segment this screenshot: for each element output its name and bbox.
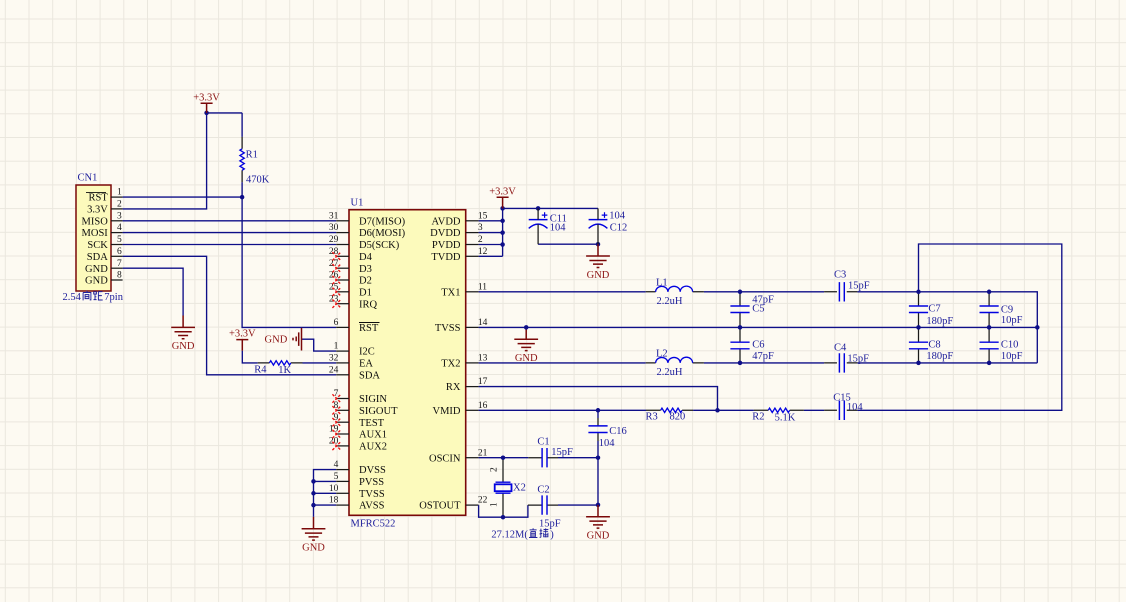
wire: C2 to ground column: [558, 504, 598, 506]
wire: VMID through R3 R2 C15 and loop to TX1: [479, 244, 1062, 410]
svg-text:GND: GND: [265, 335, 288, 346]
capacitor C15: [824, 401, 857, 420]
svg-text:C1: C1: [537, 436, 549, 447]
svg-text:U1: U1: [351, 198, 364, 209]
resistor R3: [646, 408, 693, 412]
svg-text:13: 13: [478, 354, 488, 364]
junction: TX2/C10: [987, 361, 992, 366]
svg-text:TX2: TX2: [441, 359, 460, 370]
junction: TX2/C8: [916, 361, 921, 366]
ground: GND below U1: [302, 517, 326, 554]
svg-text:R1: R1: [246, 150, 258, 161]
svg-text:27: 27: [329, 259, 339, 269]
svg-text:TVDD: TVDD: [431, 252, 461, 263]
svg-text:L1: L1: [656, 277, 668, 288]
svg-text:820: 820: [670, 412, 686, 423]
wire: +3.3V to R4: [242, 351, 257, 363]
capacitor C6: [730, 327, 749, 363]
svg-text:L2: L2: [656, 348, 668, 359]
U1 pin 32 (EA): [329, 354, 374, 370]
svg-text:D4: D4: [359, 252, 373, 263]
svg-text:29: 29: [329, 235, 339, 245]
U1 pin 29 (D5(SCK)): [329, 235, 400, 251]
svg-text:AVDD: AVDD: [432, 216, 461, 227]
U1 pin 31 (D7(MISO)): [329, 211, 406, 227]
wire: CN1 RST to R1 junction: [123, 196, 243, 198]
svg-text:MISO: MISO: [82, 216, 109, 227]
svg-text:4: 4: [117, 223, 122, 233]
U1 pin 17 (RX): [446, 377, 488, 393]
label X2 value 27.12M(直插): [491, 528, 554, 541]
U1 pin 22 (OSTOUT): [419, 496, 487, 512]
junction: PVDD: [500, 242, 505, 247]
svg-text:104: 104: [847, 402, 864, 413]
capacitor C12: [589, 208, 608, 244]
svg-text:+3.3V: +3.3V: [489, 186, 516, 197]
no-connect X on U1 pin 23: [332, 300, 340, 308]
power +3.3V top-left: [193, 92, 220, 113]
resistor R1: [240, 137, 244, 182]
no-connect X on U1 pin 9: [332, 418, 340, 426]
junction: C12 bottom / GND: [596, 242, 601, 247]
svg-text:AUX2: AUX2: [359, 442, 387, 453]
U1 pin 11 (TX1): [441, 282, 487, 298]
wire: TVSS across: [479, 326, 1038, 328]
ground: GND sideways at I2C: [265, 328, 302, 351]
capacitor C3: [824, 282, 857, 301]
junction: TVSS/C7/C8: [916, 325, 921, 330]
wire: +3.3V rail to R1 top: [207, 112, 243, 114]
svg-text:15: 15: [478, 211, 488, 221]
U1 pin 16 (VMID): [433, 401, 488, 417]
junction: TVSS right end: [1035, 325, 1040, 330]
svg-text:D5(SCK): D5(SCK): [359, 240, 400, 251]
svg-text:1: 1: [489, 502, 499, 507]
svg-text:C10: C10: [1001, 340, 1019, 351]
svg-text:AVSS: AVSS: [359, 501, 385, 512]
U1 pin 24 (SDA): [329, 365, 381, 381]
U1 pin 8 (SIGOUT): [334, 401, 398, 417]
svg-text:TX1: TX1: [441, 287, 460, 298]
ground: GND on TVSS: [514, 327, 538, 364]
inductor L1: [646, 286, 704, 292]
svg-text:8: 8: [117, 271, 122, 281]
ground: GND below C12: [586, 244, 610, 281]
CN1 pin 1 (RST): [86, 188, 123, 204]
wire: AVDD/DVDD/PVDD/TVDD to +3.3V rail: [479, 208, 503, 256]
wire: DVSS/PVSS/TVSS/AVSS to ground: [314, 470, 337, 517]
svg-text:3.3V: 3.3V: [87, 205, 108, 216]
svg-text:+3.3V: +3.3V: [193, 92, 220, 103]
svg-text:5: 5: [334, 472, 339, 482]
svg-text:5: 5: [117, 235, 122, 245]
svg-text:2.54: 2.54: [63, 292, 82, 303]
svg-text:14: 14: [478, 318, 488, 328]
CN1 pin 7 (GND): [85, 259, 123, 275]
svg-text:D6(MOSI): D6(MOSI): [359, 228, 406, 239]
svg-text:21: 21: [478, 448, 488, 458]
svg-text:5.1K: 5.1K: [775, 412, 796, 423]
svg-text:VMID: VMID: [433, 406, 461, 417]
svg-text:15pF: 15pF: [551, 447, 573, 458]
wire: R1 bottom / RST vertical to U1 pin 6: [242, 182, 336, 327]
no-connect X on U1 pin 28: [332, 252, 340, 260]
junction: +3.3V rail top: [500, 206, 505, 211]
junction: AVSS: [311, 503, 316, 508]
svg-text:18: 18: [329, 496, 339, 506]
U1 pin 9 (TEST): [334, 413, 385, 429]
U1 pin 30 (D6(MOSI)): [329, 223, 406, 239]
junction: +3.3V rail / CN1 3.3V: [204, 111, 209, 116]
U1 pin 15 (AVDD): [432, 211, 488, 227]
U1 pin 23 (IRQ): [329, 294, 378, 310]
svg-text:PVSS: PVSS: [359, 477, 384, 488]
wire: CN1 GND pin 7 down to ground: [123, 268, 184, 315]
svg-text:X2: X2: [513, 483, 526, 494]
svg-text:30: 30: [329, 223, 339, 233]
wire: RX to VMID node: [479, 387, 718, 411]
wire: MOSI: [123, 232, 337, 234]
svg-text:C9: C9: [1001, 304, 1013, 315]
svg-text:TEST: TEST: [359, 418, 385, 429]
junction: VMID/C16: [596, 408, 601, 413]
U1 pin 12 (TVDD): [431, 247, 487, 263]
junction: OSTOUT/X2: [501, 515, 506, 520]
capacitor C5: [730, 292, 749, 328]
svg-text:10: 10: [329, 484, 339, 494]
svg-text:): ): [550, 530, 554, 541]
wire: R4 to U1 pin 32 EA: [303, 362, 337, 364]
svg-text:RST: RST: [359, 323, 379, 334]
svg-text:R4: R4: [254, 364, 267, 375]
svg-text:RX: RX: [446, 382, 461, 393]
svg-text:2.2uH: 2.2uH: [657, 367, 683, 378]
svg-text:SDA: SDA: [87, 252, 108, 263]
svg-text:7pin: 7pin: [104, 292, 123, 303]
svg-text:+3.3V: +3.3V: [229, 329, 256, 340]
svg-text:R2: R2: [752, 411, 764, 422]
svg-text:SCK: SCK: [87, 240, 108, 251]
junction: TX2/C6: [738, 361, 743, 366]
svg-text:15pF: 15pF: [848, 280, 870, 291]
junction: TVSS/GND: [524, 325, 529, 330]
svg-text:EA: EA: [359, 359, 373, 370]
svg-text:180pF: 180pF: [926, 316, 953, 327]
capacitor C16: [588, 418, 607, 441]
svg-text:OSCIN: OSCIN: [429, 453, 461, 464]
svg-text:180pF: 180pF: [926, 351, 953, 362]
capacitor C2: [528, 495, 558, 514]
svg-text:C2: C2: [537, 485, 549, 496]
wire: C1 to ground column: [558, 457, 598, 459]
svg-text:470K: 470K: [246, 175, 270, 186]
CN1 pin 3 (MISO): [82, 211, 123, 227]
capacitor C10: [980, 327, 999, 363]
svg-text:2.2uH: 2.2uH: [657, 296, 683, 307]
junction: OSCIN/X2: [501, 455, 506, 460]
svg-text:GND: GND: [587, 270, 610, 281]
svg-text:27.12M(: 27.12M(: [491, 530, 528, 541]
CN1 pin 8 (GND): [85, 271, 123, 287]
wire: CN1 3.3V pin up to +3.3V rail: [123, 113, 207, 209]
U1 pin 5 (PVSS): [334, 472, 385, 488]
CN1 pin 2 (3.3V): [87, 200, 123, 216]
U1 pin 18 (AVSS): [329, 496, 385, 512]
op-amp/IC U1 body MFRC522: [349, 210, 466, 516]
svg-text:GND: GND: [172, 341, 195, 352]
svg-text:15pF: 15pF: [539, 519, 561, 530]
svg-text:SIGIN: SIGIN: [359, 394, 387, 405]
resistor R2: [754, 408, 804, 412]
junction: TVSS pin 10: [311, 491, 316, 496]
power +3.3V above U1: [489, 186, 516, 208]
svg-text:D1: D1: [359, 287, 372, 298]
svg-text:32: 32: [329, 354, 339, 364]
U1 pin 13 (TX2): [441, 354, 487, 370]
capacitor C9: [980, 292, 999, 328]
no-connect X on U1 pin 20: [332, 442, 340, 450]
wire: OSCIN to C1: [479, 457, 529, 459]
junction: TX1/C5: [738, 290, 743, 295]
svg-text:1: 1: [334, 342, 339, 352]
svg-text:AUX1: AUX1: [359, 430, 387, 441]
svg-text:3: 3: [478, 223, 483, 233]
svg-text:TVSS: TVSS: [435, 323, 461, 334]
svg-text:2: 2: [117, 200, 122, 210]
svg-text:24: 24: [329, 365, 339, 375]
ground: GND below CN1: [171, 316, 195, 353]
svg-text:TVSS: TVSS: [359, 489, 385, 500]
U1 pin 7 (SIGIN): [334, 389, 388, 405]
svg-text:28: 28: [329, 247, 339, 257]
junction: PVSS: [311, 479, 316, 484]
wire: TX2 segments: [479, 362, 1038, 364]
svg-text:104: 104: [599, 438, 616, 449]
U1 pin 3 (DVDD): [430, 223, 483, 239]
resistor R4: [258, 361, 303, 365]
svg-text:C16: C16: [609, 426, 627, 437]
svg-text:10pF: 10pF: [1001, 315, 1023, 326]
svg-text:DVDD: DVDD: [430, 228, 461, 239]
svg-text:PVDD: PVDD: [432, 240, 461, 251]
CN1 pin 4 (MOSI): [82, 223, 123, 239]
svg-text:C4: C4: [834, 342, 847, 353]
U1 pin 14 (TVSS): [435, 318, 488, 334]
svg-text:C5: C5: [752, 304, 764, 315]
junction: C2/GND column: [596, 503, 601, 508]
svg-text:GND: GND: [302, 543, 325, 554]
junction: AVDD: [500, 219, 505, 224]
U1 pin 28 (D4): [329, 247, 373, 263]
inductor L2: [646, 357, 704, 363]
svg-text:104: 104: [609, 211, 626, 222]
CN1 subtitle 2.54间距7pin: [63, 291, 124, 303]
svg-text:D3: D3: [359, 264, 372, 275]
junction: DVDD: [500, 230, 505, 235]
svg-text:OSTOUT: OSTOUT: [419, 501, 461, 512]
svg-text:C8: C8: [928, 340, 940, 351]
no-connect X on U1 pin 19: [332, 430, 340, 438]
svg-text:23: 23: [329, 294, 339, 304]
svg-text:1K: 1K: [278, 365, 291, 376]
no-connect X on U1 pin 8: [332, 406, 340, 414]
U1 pin 2 (PVDD): [432, 235, 483, 251]
U1 pin 10 (TVSS): [329, 484, 385, 500]
svg-text:CN1: CN1: [78, 173, 98, 184]
U1 pin 25 (D1): [329, 282, 372, 298]
junction: TVSS/C5/C6: [738, 325, 743, 330]
svg-text:RST: RST: [89, 193, 109, 204]
U1 pin 6 (RST): [334, 318, 380, 334]
svg-text:6: 6: [334, 318, 339, 328]
U1 pin 27 (D3): [329, 259, 372, 275]
wire: U1 I2C pin to ground bar: [302, 339, 337, 351]
U1 pin 21 (OSCIN): [429, 448, 488, 464]
wire: SCK: [123, 244, 337, 246]
no-connect X on U1 pin 25: [332, 288, 340, 296]
wire: TX1 segments: [479, 292, 1038, 363]
connector CN1 body: [76, 185, 111, 291]
svg-text:104: 104: [550, 222, 567, 233]
capacitor C8: [909, 327, 928, 363]
CN1 pin 6 (SDA): [87, 247, 123, 263]
svg-text:C12: C12: [610, 223, 628, 234]
svg-text:31: 31: [329, 211, 339, 221]
no-connect X on U1 pin 7: [332, 394, 340, 402]
capacitor C4: [824, 353, 857, 372]
svg-text:C6: C6: [752, 340, 764, 351]
U1 pin 1 (I2C): [334, 342, 375, 358]
junction: R1 bottom / CN1 RST: [240, 195, 245, 200]
svg-text:1: 1: [117, 188, 122, 198]
svg-text:20: 20: [329, 437, 339, 447]
svg-text:GND: GND: [85, 264, 108, 275]
crystal X2: [495, 458, 512, 518]
U1 pin 20 (AUX2): [329, 437, 387, 453]
wire: C11/C12 bottom to GND: [538, 243, 598, 245]
junction: TX1/C9: [987, 290, 992, 295]
svg-text:7: 7: [117, 259, 122, 269]
svg-text:16: 16: [478, 401, 488, 411]
svg-text:19: 19: [329, 425, 339, 435]
svg-text:D2: D2: [359, 276, 372, 287]
svg-text:GND: GND: [85, 276, 108, 287]
CN1 pin 5 (SCK): [87, 235, 122, 251]
svg-text:I2C: I2C: [359, 347, 375, 358]
svg-text:26: 26: [329, 271, 339, 281]
svg-text:6: 6: [117, 247, 122, 257]
junction: C1/C16 column: [596, 455, 601, 460]
no-connect X on U1 pin 26: [332, 276, 340, 284]
svg-text:SDA: SDA: [359, 370, 380, 381]
wire: MISO: [123, 220, 337, 222]
svg-text:IRQ: IRQ: [359, 299, 378, 310]
svg-text:3: 3: [117, 211, 122, 221]
wire: R1 top segment: [241, 113, 243, 137]
svg-text:GND: GND: [587, 531, 610, 542]
ground: GND below oscillator: [586, 505, 610, 542]
svg-text:4: 4: [334, 460, 339, 470]
svg-text:2: 2: [478, 235, 483, 245]
U1 pin 4 (DVSS): [334, 460, 386, 476]
svg-text:10pF: 10pF: [1001, 351, 1023, 362]
junction: VMID/RX/R3/R2: [715, 408, 720, 413]
svg-text:SIGOUT: SIGOUT: [359, 406, 398, 417]
wire: SDA from CN1 to U1 pin 24: [123, 256, 337, 375]
svg-text:C3: C3: [834, 270, 846, 281]
svg-text:12: 12: [478, 247, 488, 257]
svg-text:11: 11: [478, 282, 487, 292]
wire: OSTOUT loop under crystal: [479, 505, 528, 517]
svg-text:MFRC522: MFRC522: [351, 519, 396, 530]
svg-text:15pF: 15pF: [847, 353, 869, 364]
svg-text:25: 25: [329, 282, 339, 292]
svg-text:MOSI: MOSI: [82, 228, 109, 239]
svg-text:R3: R3: [646, 411, 658, 422]
capacitor C1: [528, 448, 558, 467]
wire: VMID down through C16 to oscillator ground column: [597, 410, 599, 505]
svg-text:2: 2: [489, 467, 499, 472]
U1 pin 19 (AUX1): [329, 425, 387, 441]
svg-text:D7(MISO): D7(MISO): [359, 216, 406, 227]
capacitor C11: [529, 208, 548, 244]
svg-text:17: 17: [478, 377, 488, 387]
capacitor C7: [909, 292, 928, 328]
power +3.3V at R4: [229, 329, 256, 351]
junction: TX1/C7/loop: [916, 290, 921, 295]
junction: C11 top: [536, 206, 541, 211]
svg-text:47pF: 47pF: [752, 351, 774, 362]
svg-text:DVSS: DVSS: [359, 465, 386, 476]
svg-text:22: 22: [478, 496, 488, 506]
U1 pin 26 (D2): [329, 271, 372, 287]
junction: TVSS/C9/C10: [987, 325, 992, 330]
svg-text:C7: C7: [928, 304, 940, 315]
wire: +3.3V rail to C11/C12: [503, 207, 598, 209]
no-connect X on U1 pin 27: [332, 264, 340, 272]
svg-text:GND: GND: [515, 353, 538, 364]
